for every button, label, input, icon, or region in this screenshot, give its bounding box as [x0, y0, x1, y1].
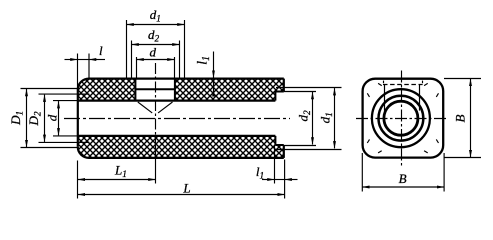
svg-text:d: d [149, 44, 156, 59]
svg-text:B: B [452, 114, 467, 122]
svg-text:B: B [399, 171, 407, 186]
svg-text:d: d [45, 114, 60, 121]
svg-text:L: L [182, 180, 190, 195]
svg-text:l: l [99, 43, 103, 58]
